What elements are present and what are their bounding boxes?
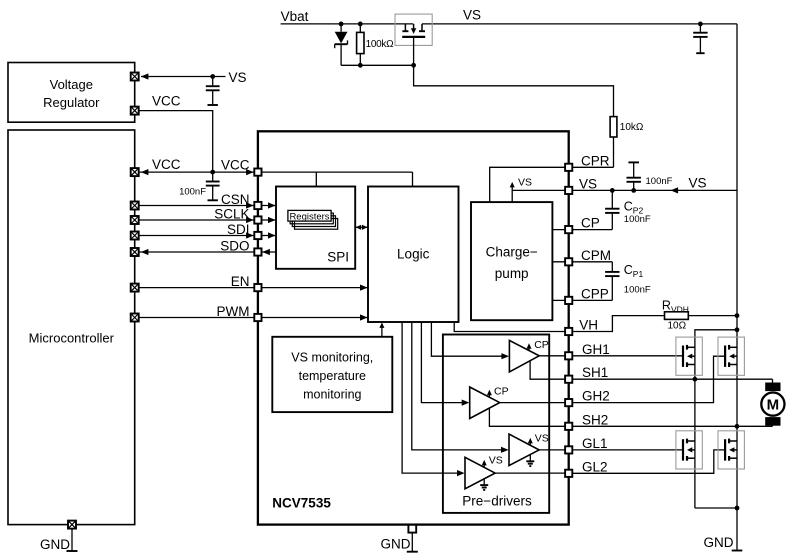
IC right pin CP	[565, 226, 572, 233]
wire charge-pump stub CP	[552, 229, 568, 231]
MCU pin PWM (crossed)	[131, 314, 139, 322]
IC right pin VS	[565, 187, 572, 194]
op-amp driver A4 (GL2)	[465, 455, 569, 490]
logic block box	[368, 187, 459, 323]
capacitor C4 100nF (VS)	[627, 162, 641, 190]
IC pin SCLK	[254, 216, 261, 223]
svg-text:Voltage: Voltage	[50, 77, 93, 92]
svg-text:VDH: VDH	[671, 305, 689, 315]
wire right VS bus vertical	[736, 24, 738, 550]
junction Vbat/R1	[358, 22, 363, 27]
junction VS/CP2	[610, 188, 615, 193]
junction VS/C4	[631, 188, 636, 193]
wire VH pin to RVDH	[569, 316, 665, 332]
wire logic to GH1 driver	[431, 322, 509, 359]
svg-text:GH1: GH1	[582, 342, 610, 357]
IC pin EN	[254, 284, 261, 291]
wire logic to GH2 driver	[421, 322, 469, 406]
svg-text:CPM: CPM	[581, 248, 611, 263]
wire VCC from regulator	[135, 111, 213, 173]
arrowhead SDI into IC pin	[246, 232, 254, 238]
svg-text:VCC: VCC	[152, 157, 181, 172]
wire CSN	[139, 205, 258, 207]
wire VS internal to charge-pump	[510, 177, 569, 203]
svg-text:VH: VH	[579, 318, 598, 333]
wire gate net bottom	[341, 64, 414, 66]
IC right pin GH1	[565, 352, 572, 359]
svg-text:VS: VS	[689, 176, 707, 191]
IC right pin GH2	[565, 399, 572, 406]
wire VH internal to Logic	[454, 322, 569, 332]
wire EN	[139, 287, 258, 289]
charge-pump block box	[471, 202, 552, 320]
IC pin SDI	[254, 232, 261, 239]
transistor Q2 high-side 2	[718, 337, 744, 375]
wire GL2 pin to Q4 gate	[569, 450, 725, 473]
arrowhead CSN into IC pin	[246, 202, 254, 208]
MCU pin SDO (crossed)	[131, 248, 139, 256]
regulator pin VCC (crossed)	[131, 107, 139, 115]
svg-text:SCLK: SCLK	[214, 206, 249, 221]
MCU GND pin (crossed)	[68, 521, 76, 529]
svg-text:Microcontroller: Microcontroller	[29, 331, 115, 346]
capacitor C1 (VS decoupling)	[206, 77, 220, 106]
wire phase1 vertical through Q3	[694, 379, 696, 508]
svg-text:100nF: 100nF	[624, 285, 651, 296]
MCU pin CSN (crossed)	[131, 202, 139, 210]
svg-text:pump: pump	[495, 266, 529, 281]
microcontroller U3 box	[8, 130, 135, 525]
svg-text:GND: GND	[381, 537, 411, 552]
capacitor C5 CP2	[605, 190, 619, 229]
svg-text:10Ω: 10Ω	[668, 321, 687, 332]
VS monitoring block box	[272, 337, 392, 412]
transistor Q1 high-side 1	[676, 337, 702, 375]
wire FET gate to 10k resistor	[414, 65, 614, 116]
svg-text:VS: VS	[489, 455, 503, 467]
svg-text:CPR: CPR	[581, 154, 610, 169]
wire SDI	[139, 235, 258, 237]
wire GH1 pin to Q1 gate	[569, 355, 683, 357]
arrowhead VS feed	[671, 187, 679, 193]
svg-text:M: M	[767, 397, 780, 414]
transistor Q5 reverse-protection FET	[395, 14, 432, 65]
wire EN inside IC to Logic	[258, 287, 368, 289]
value label CP1	[624, 263, 651, 296]
SPI block box	[276, 187, 355, 269]
svg-text:100nF: 100nF	[646, 176, 673, 187]
svg-text:Regulator: Regulator	[43, 95, 100, 110]
node VS (regulator supply) wire	[141, 76, 226, 78]
svg-text:GND: GND	[704, 535, 734, 550]
wire CPR pin to R2	[569, 166, 614, 168]
capacitor C3 (VS bulk)	[693, 24, 707, 53]
voltage regulator U2 box	[8, 63, 135, 123]
IC pin SDO	[254, 248, 261, 255]
svg-text:C: C	[624, 200, 633, 214]
wire SH2 rail	[569, 425, 773, 427]
resistor R2 10k	[610, 117, 617, 168]
svg-text:VS: VS	[229, 70, 247, 85]
junction drain branch/bus	[735, 327, 740, 332]
svg-text:CP: CP	[494, 385, 509, 397]
IC right pin GL2	[565, 470, 572, 477]
arrowhead into IC VCC pin	[246, 169, 254, 175]
svg-text:R: R	[662, 299, 671, 313]
IC pin VCC	[254, 169, 261, 176]
arrowhead SCLK into IC pin	[246, 217, 254, 223]
IC right pin GL1	[565, 446, 572, 453]
capacitor C6 CP1	[605, 262, 619, 301]
value label RVDH	[662, 299, 689, 332]
svg-text:GH2: GH2	[582, 389, 610, 404]
junction RVDH/bus	[735, 313, 740, 318]
junction ground bus	[735, 506, 740, 511]
svg-text:Logic: Logic	[397, 247, 430, 262]
IC GND pin	[408, 525, 416, 533]
svg-text:NCV7535: NCV7535	[272, 496, 331, 511]
svg-text:Vbat: Vbat	[281, 9, 309, 24]
junction on VS wire	[210, 74, 215, 79]
svg-text:100nF: 100nF	[624, 214, 651, 225]
capacitor C2 100nF	[206, 172, 220, 200]
wire SDO	[139, 251, 258, 253]
svg-text:VS: VS	[535, 433, 549, 445]
svg-text:PWM: PWM	[217, 304, 250, 319]
wire SDI inside IC to SPI	[258, 235, 276, 237]
motor M1	[761, 379, 784, 426]
svg-text:VS: VS	[518, 177, 532, 189]
IC right pin CPR	[565, 164, 572, 171]
transistor Q3 low-side 1	[676, 431, 702, 469]
MCU pin SDI (crossed)	[131, 232, 139, 240]
IC right pin SH2	[565, 423, 572, 430]
wire VCC internal tree	[258, 172, 413, 186]
svg-text:CP: CP	[581, 216, 600, 231]
junction SH2/bus	[735, 424, 740, 429]
wire CPP pin to C6	[569, 299, 613, 301]
wire VS-monitor arrow to Logic	[379, 322, 384, 336]
svg-text:monitoring: monitoring	[303, 388, 361, 402]
wire PWM inside IC to Logic	[258, 317, 368, 319]
regulator pin VS (crossed)	[131, 73, 139, 81]
svg-text:SDO: SDO	[220, 238, 249, 253]
svg-text:100nF: 100nF	[179, 187, 206, 198]
wire VCC rail MCU to IC	[139, 171, 258, 173]
wire SPI-Logic bidirectional	[355, 225, 368, 230]
svg-text:Registers: Registers	[289, 212, 329, 223]
wire VS pin to right bus	[569, 189, 737, 191]
svg-text:CPP: CPP	[581, 286, 609, 301]
svg-text:CP: CP	[534, 339, 549, 351]
junction Vbat/zener	[339, 22, 344, 27]
svg-text:VS monitoring,: VS monitoring,	[291, 351, 373, 365]
svg-text:VS: VS	[463, 8, 481, 23]
arrowhead into MCU VCC pin	[141, 169, 149, 175]
svg-text:100kΩ: 100kΩ	[366, 39, 394, 50]
wire GH2 pin to Q2 gate	[569, 356, 725, 402]
svg-text:P1: P1	[633, 269, 644, 279]
wire drain branch to Q1	[695, 330, 737, 379]
wire charge-pump stub CPP	[552, 299, 568, 301]
IC right pin SH1	[565, 376, 572, 383]
arrowhead SDO into MCU pin	[141, 249, 149, 255]
MCU pin VCC (crossed)	[131, 168, 139, 176]
svg-text:VCC: VCC	[221, 158, 250, 173]
ground IC	[381, 533, 418, 552]
wire logic to GL1 driver	[412, 322, 509, 453]
MCU pin SCLK (crossed)	[131, 216, 139, 224]
wire VS from FET drain to top right corner	[422, 23, 737, 25]
junction gate tee	[411, 63, 416, 68]
op-amp driver A3 (GL1)	[509, 433, 569, 466]
op-amp driver A2 (GH2)	[470, 385, 569, 426]
svg-text:SH1: SH1	[582, 365, 608, 380]
wire SCLK inside IC to SPI	[258, 219, 276, 221]
wire CPR internal to charge-pump	[490, 167, 569, 202]
svg-text:10kΩ: 10kΩ	[620, 122, 644, 133]
value label CP2	[624, 200, 651, 226]
svg-text:VS: VS	[579, 176, 597, 191]
wire Vbat to FET source	[281, 23, 414, 25]
wire SDO inside IC from SPI	[258, 251, 276, 253]
svg-text:Charge−: Charge−	[486, 245, 538, 260]
wire SCLK	[139, 219, 258, 221]
resistor R3 RVDH 10ohm	[665, 312, 738, 320]
svg-text:SH2: SH2	[582, 412, 608, 427]
svg-text:EN: EN	[231, 274, 250, 289]
svg-text:SPI: SPI	[327, 250, 349, 265]
svg-text:C: C	[624, 263, 633, 277]
IC right pin CPP	[565, 297, 572, 304]
svg-text:GL2: GL2	[582, 459, 608, 474]
junction SH1/phase1	[693, 377, 698, 382]
wire PWM	[139, 317, 258, 319]
wire charge-pump stub CPM	[552, 261, 568, 263]
wire CPM pin to C6	[569, 261, 613, 263]
wire Q3 source to ground bus	[695, 507, 737, 509]
junction VCC rail / C2	[210, 170, 215, 175]
IC pin CSN	[254, 202, 261, 209]
resistor R1 100k	[357, 24, 364, 65]
transistor Q4 low-side 2	[718, 431, 744, 469]
wire CSN inside IC to SPI	[258, 205, 276, 207]
wire GL1 pin to Q3 gate	[569, 449, 683, 451]
junction R1/gate wire	[358, 63, 363, 68]
IC pin PWM	[254, 314, 261, 321]
op-amp driver A1 (GH1)	[509, 339, 568, 379]
op-amp U1 NCV7535 IC box	[258, 131, 569, 524]
svg-text:GL1: GL1	[582, 436, 608, 451]
svg-text:temperature: temperature	[299, 369, 366, 383]
wire logic to GL2 driver	[402, 322, 465, 476]
svg-text:CSN: CSN	[221, 192, 250, 207]
ground MCU	[40, 529, 78, 552]
registers stack icon	[288, 210, 338, 229]
arrowhead into regulator VS pin	[141, 73, 149, 79]
wire CP pin to C5	[569, 229, 613, 231]
wire SH1 rail	[569, 378, 773, 380]
ground right	[704, 535, 743, 551]
IC right pin CPM	[565, 258, 572, 265]
pre-drivers block box	[443, 335, 549, 513]
svg-text:GND: GND	[40, 537, 70, 552]
junction top-right cap	[698, 22, 703, 27]
svg-text:VCC: VCC	[152, 94, 181, 109]
zener diode D1	[335, 24, 348, 65]
IC right pin VH	[565, 328, 572, 335]
MCU pin EN (crossed)	[131, 284, 139, 292]
svg-text:Pre−drivers: Pre−drivers	[462, 494, 532, 509]
